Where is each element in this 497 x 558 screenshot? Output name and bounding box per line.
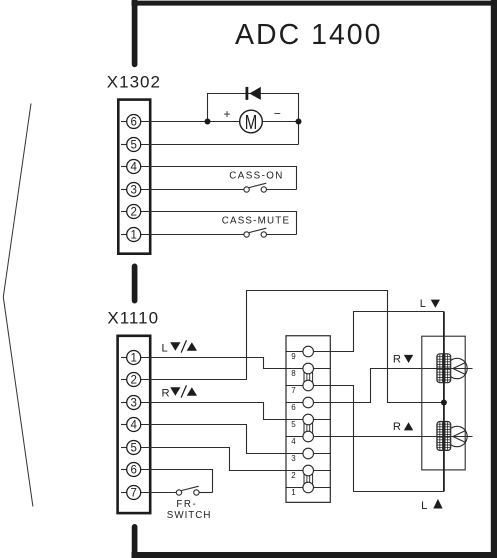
svg-text:R: R — [162, 387, 170, 399]
wire inline pin 7 to L-up rail — [331, 386, 444, 492]
svg-text:L: L — [421, 500, 427, 512]
wire X1302 pin 5 motor return — [141, 144, 299, 146]
svg-text:SWITCH: SWITCH — [167, 510, 212, 521]
X1302 pin 3 — [121, 183, 141, 197]
link bar pins 5-4 — [304, 424, 313, 434]
inline connector pin 6 contact — [303, 397, 314, 408]
svg-text:CASS-MUTE: CASS-MUTE — [222, 216, 291, 227]
inline connector pin 7 wire — [285, 385, 331, 387]
motor coil upper — [437, 354, 451, 383]
svg-text:FR-: FR- — [176, 499, 197, 510]
inline connector pin 1 contact — [303, 482, 314, 493]
svg-text:5: 5 — [130, 140, 136, 152]
X1302 pin 6 — [121, 115, 141, 129]
frame left segment middle — [132, 266, 138, 300]
X1302 pin 4 — [121, 160, 141, 174]
svg-text:1: 1 — [291, 488, 296, 497]
junction at motor minus — [296, 119, 302, 125]
wire FR switch right — [199, 492, 213, 494]
inline connector pin 2 wire — [285, 470, 331, 472]
svg-text:M: M — [245, 112, 258, 134]
cable harness bracket lower diagonal — [3, 297, 33, 507]
svg-text:R: R — [393, 354, 401, 366]
inline connector pin 4 contact — [303, 431, 314, 442]
wire X1110 pin 7 to FR switch — [141, 492, 177, 494]
inline connector pin 3 wire — [285, 453, 331, 455]
X1110 pin 7 — [121, 486, 141, 500]
connector X1110 body — [118, 336, 151, 513]
switch CASS-MUTE — [244, 228, 267, 237]
motor M body — [240, 110, 263, 133]
inline connector pin 7 contact — [303, 380, 314, 391]
X1110 pin 1 — [121, 351, 141, 365]
wire CASS-ON switch right — [266, 189, 296, 191]
inline connector pin 3 contact — [303, 448, 314, 459]
svg-text:4: 4 — [130, 162, 137, 174]
inline connector pin 6 wire — [285, 402, 331, 404]
svg-text:+: + — [223, 107, 230, 121]
frame left segment top — [132, 0, 138, 64]
wire X1110 pin 3 to inline connector pin 5 — [141, 403, 286, 420]
label R up — [393, 421, 413, 433]
junction at diode anode — [205, 119, 211, 125]
wire R-down from inline pin 6 through upper coil — [331, 369, 473, 403]
svg-text:4: 4 — [291, 437, 296, 446]
X1110 pin 2 — [121, 373, 141, 387]
svg-text:R: R — [393, 421, 401, 433]
label R down — [393, 354, 413, 366]
socket coupling upper — [447, 358, 467, 378]
wire inline pin 9 to L-down rail — [331, 312, 444, 352]
X1110 pin 6 — [121, 463, 141, 477]
svg-text:L: L — [162, 342, 168, 354]
wire diode branch — [208, 94, 299, 145]
svg-text:8: 8 — [291, 369, 296, 378]
wire X1110 pin 5 to inline connector pin 2 — [141, 448, 286, 471]
wire X1302 pin 1 to CASS-MUTE switch — [141, 234, 244, 236]
svg-text:3: 3 — [130, 398, 136, 410]
cable harness bracket upper diagonal — [3, 104, 31, 298]
inline connector pin 4 wire — [285, 436, 331, 438]
svg-text:6: 6 — [291, 403, 296, 412]
svg-text:ADC 1400: ADC 1400 — [235, 19, 383, 51]
motor coil lower — [437, 422, 451, 451]
wire X1302 pin 2 to CASS-MUTE switch — [141, 212, 297, 235]
X1302 pin 5 — [121, 138, 141, 152]
svg-text:L: L — [420, 298, 426, 310]
svg-text:7: 7 — [130, 488, 136, 500]
X1302 pin 2 — [121, 205, 141, 219]
diode D1 triangle — [249, 87, 260, 100]
wire R-up from inline pin 4 through lower coil — [331, 436, 473, 438]
X1302 pin 1 — [121, 228, 141, 242]
label L up — [421, 499, 443, 512]
mechanism box — [422, 336, 465, 470]
X1110 pin 5 — [121, 441, 141, 455]
svg-text:1: 1 — [130, 230, 136, 242]
X1110 pin 3 — [121, 396, 141, 410]
svg-text:3: 3 — [130, 185, 136, 197]
svg-text:6: 6 — [130, 465, 136, 477]
frame left segment bottom — [132, 527, 138, 556]
inline connector pin 8 contact — [303, 363, 314, 374]
wire CASS-MUTE switch right — [266, 234, 296, 236]
X1110 pin 4 — [121, 418, 141, 432]
svg-text:5: 5 — [130, 443, 136, 455]
svg-text:4: 4 — [130, 420, 137, 432]
switch FR — [176, 486, 199, 495]
inline connector pin 5 contact — [303, 414, 314, 425]
svg-text:−: − — [274, 107, 281, 121]
inline connector pin 2 contact — [303, 465, 314, 476]
svg-text:7: 7 — [291, 386, 296, 395]
inline connector pin 9 wire — [285, 351, 331, 353]
switch CASS-ON — [244, 183, 267, 192]
svg-text:2: 2 — [130, 207, 136, 219]
wire X1110 pin 1 to inline connector pin 8 — [141, 358, 286, 369]
socket coupling lower — [447, 426, 467, 446]
label L down/up at X1110 pin 1 — [162, 340, 198, 354]
svg-text:6: 6 — [130, 117, 136, 129]
svg-text:X1110: X1110 — [107, 309, 159, 328]
wire X1302 pin 3 to CASS-ON switch — [141, 189, 244, 191]
frame bottom border — [132, 552, 497, 558]
wire X1110 pin 2 to motor center tap — [141, 291, 444, 403]
motor L rail vertical — [443, 312, 445, 492]
inline connector pin 5 wire — [285, 419, 331, 421]
inline connector pin 1 wire — [285, 487, 331, 489]
svg-text:1: 1 — [130, 353, 136, 365]
wire X1302 pin 6 to motor plus — [141, 121, 299, 123]
svg-text:2: 2 — [291, 471, 296, 480]
inline connector pin 8 wire — [285, 368, 331, 370]
svg-text:2: 2 — [130, 375, 136, 387]
connector X1302 body — [118, 100, 150, 254]
svg-text:X1302: X1302 — [107, 73, 161, 92]
label L down — [420, 298, 440, 310]
wire X1110 pin 4 to inline connector pin 3 — [141, 425, 286, 454]
svg-text:3: 3 — [291, 454, 296, 463]
label R down/up at X1110 pin 3 — [162, 385, 198, 399]
svg-text:9: 9 — [291, 352, 296, 361]
link bar pins 8-7 — [304, 373, 313, 383]
frame top border — [132, 1, 497, 6]
svg-text:5: 5 — [291, 420, 296, 429]
inline connector pin 9 contact — [303, 346, 314, 357]
svg-text:CASS-ON: CASS-ON — [229, 171, 283, 182]
wire X1110 pin 6 to FR switch — [141, 470, 213, 493]
inline connector body — [286, 336, 330, 503]
wire X1302 pin 4 to CASS-ON switch — [141, 167, 297, 190]
frame right border — [491, 0, 497, 558]
diode D1 cathode bar — [245, 87, 248, 100]
link bar pins 2-1 — [304, 475, 313, 485]
junction L center tap — [441, 400, 447, 406]
